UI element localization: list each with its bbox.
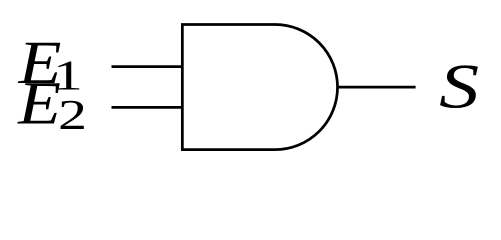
svg-text:S: S <box>439 51 479 121</box>
svg-text:E: E <box>17 71 61 138</box>
svg-text:2: 2 <box>58 93 87 139</box>
wire output S <box>337 86 416 89</box>
wire input E1 <box>112 65 184 68</box>
wire input E2 <box>112 106 184 109</box>
AND gate U1 <box>182 25 337 150</box>
